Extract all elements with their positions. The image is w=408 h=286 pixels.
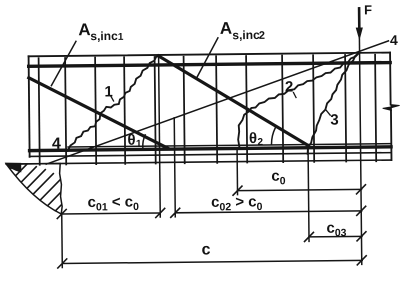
- svg-text:θ: θ: [127, 132, 135, 149]
- tick for crack label 3: [326, 110, 330, 115]
- beam bottom edge: [30, 153, 391, 157]
- crack 1 (wavy): [67, 56, 160, 151]
- second bottom reinforcement line (thin, above thick bar): [68, 144, 391, 147]
- stirrup 6 / extension of c01 end (pair right): [159, 56, 161, 216]
- stirrup 3: [95, 58, 96, 164]
- beam top edge: [29, 53, 390, 57]
- svg-text:c03: c03: [326, 220, 346, 240]
- angle arc theta2: [271, 128, 275, 144]
- line 4 from support to load point F: [45, 41, 390, 164]
- crack 3 (wavy): [307, 53, 361, 154]
- svg-text:4: 4: [390, 32, 398, 48]
- support hatch lines: [2, 160, 69, 223]
- svg-text:1: 1: [104, 83, 113, 100]
- stirrup 12: [345, 55, 346, 161]
- extension line below crack2 (left end of c0): [236, 149, 238, 195]
- extension line below load point (right end of dims): [360, 53, 362, 264]
- svg-text:c: c: [202, 241, 211, 258]
- svg-text:F: F: [364, 2, 372, 17]
- support tip solid: [5, 162, 22, 172]
- svg-text:2: 2: [257, 137, 263, 148]
- beam left edge: [29, 56, 30, 156]
- svg-text:2: 2: [285, 79, 294, 96]
- stirrup 7: [184, 57, 185, 163]
- inclined bar As,inc1 (thick diagonal): [29, 76, 168, 149]
- bottom longitudinal bar (thick): [30, 147, 391, 151]
- svg-text:c0: c0: [271, 168, 286, 188]
- svg-text:1: 1: [136, 139, 142, 150]
- angle arc theta1: [143, 135, 146, 148]
- stirrup 13: [375, 55, 376, 161]
- lower support-level line: [6, 160, 391, 164]
- stirrup 11: [313, 55, 314, 161]
- tick for crack label 2: [293, 93, 296, 98]
- svg-text:A: A: [220, 19, 232, 38]
- dimension line c02: [175, 211, 361, 213]
- svg-text:c02 > c0: c02 > c0: [211, 193, 263, 213]
- extension line from line4 intersection (left end of c02): [174, 118, 175, 217]
- dimension line c: [62, 260, 362, 263]
- tick for crack label 1: [111, 96, 114, 101]
- svg-text:s,inc: s,inc: [90, 29, 118, 43]
- break symbol on right edge: [391, 104, 400, 107]
- stirrup 8: [216, 56, 217, 162]
- stirrup 2: [65, 58, 66, 164]
- force F arrow: [358, 8, 361, 29]
- leader for As,inc2: [196, 38, 218, 78]
- svg-text:4: 4: [52, 135, 61, 152]
- stirrup 9: [246, 56, 247, 162]
- svg-text:1: 1: [118, 32, 124, 43]
- crack 2 (wavy): [237, 53, 360, 148]
- stirrup 10: [282, 56, 283, 162]
- extension line below support (left end of c, c01): [61, 214, 64, 267]
- text As,inc1: [51, 2, 401, 260]
- top longitudinal bar (thick): [29, 63, 390, 67]
- svg-text:3: 3: [330, 112, 339, 129]
- inclined bar As,inc2 (thick diagonal): [159, 54, 308, 147]
- dimension line c01: [62, 213, 160, 214]
- stirrup 5 (pair left): [155, 57, 156, 163]
- svg-text:A: A: [78, 20, 90, 39]
- support block hatched: [6, 163, 62, 214]
- svg-text:s,inc: s,inc: [232, 28, 260, 42]
- extension line below crack3 / bar2 end (left end of c03): [307, 148, 310, 241]
- stirrup 4: [124, 57, 125, 163]
- leader for As,inc1: [51, 41, 76, 85]
- svg-text:θ: θ: [249, 130, 257, 147]
- beam right edge (with break): [389, 53, 392, 105]
- svg-text:2: 2: [259, 30, 265, 42]
- dimension line c03: [309, 235, 362, 238]
- stirrup 1: [39, 58, 40, 164]
- dimension line c0: [238, 189, 362, 190]
- svg-text:c01 < c0: c01 < c0: [88, 193, 140, 213]
